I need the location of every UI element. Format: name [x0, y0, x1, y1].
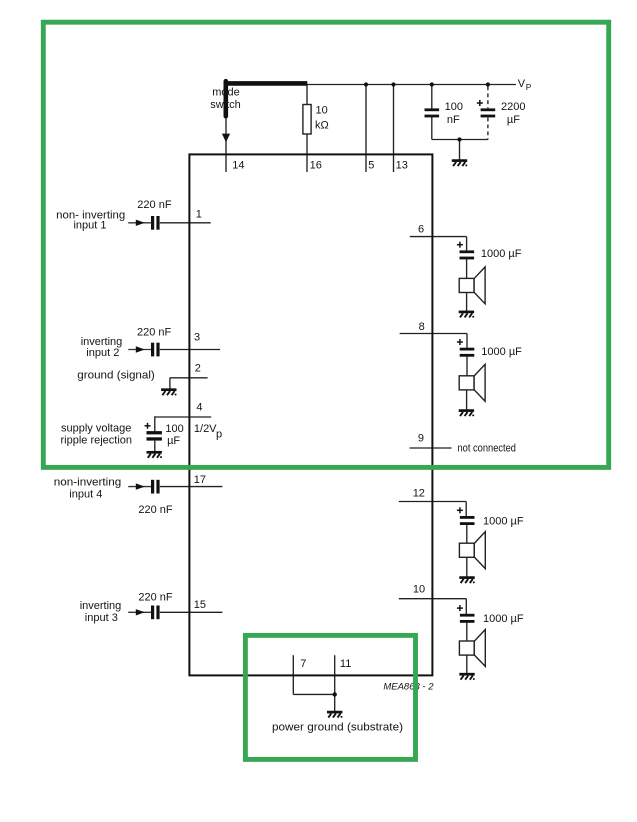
svg-text:µF: µF [167, 435, 180, 447]
svg-text:14: 14 [232, 160, 244, 172]
svg-text:1/2V: 1/2V [194, 423, 217, 435]
svg-text:power ground (substrate): power ground (substrate) [272, 722, 403, 734]
svg-text:5: 5 [368, 160, 374, 172]
svg-text:p: p [216, 428, 222, 440]
svg-text:input 3: input 3 [85, 612, 118, 624]
svg-text:1: 1 [196, 208, 202, 220]
svg-text:not connected: not connected [458, 442, 517, 454]
svg-text:1000 µF: 1000 µF [483, 613, 524, 625]
svg-text:17: 17 [194, 474, 206, 486]
svg-text:µF: µF [507, 114, 520, 126]
svg-text:3: 3 [194, 332, 200, 344]
svg-text:P: P [526, 82, 532, 92]
svg-text:MEA863 - 2: MEA863 - 2 [383, 681, 434, 692]
svg-text:100: 100 [445, 101, 463, 113]
svg-text:8: 8 [419, 321, 425, 333]
svg-text:15: 15 [194, 599, 206, 611]
svg-text:10: 10 [316, 105, 328, 117]
svg-text:1000 µF: 1000 µF [483, 515, 524, 527]
svg-text:supply voltage: supply voltage [61, 423, 131, 435]
svg-text:100: 100 [165, 423, 183, 435]
svg-text:220 nF: 220 nF [138, 504, 173, 516]
svg-text:2200: 2200 [501, 101, 525, 113]
svg-text:12: 12 [413, 488, 425, 500]
svg-text:7: 7 [300, 658, 306, 670]
svg-text:V: V [518, 78, 526, 90]
svg-text:13: 13 [396, 160, 408, 172]
svg-text:1000 µF: 1000 µF [481, 346, 522, 358]
svg-text:2: 2 [195, 363, 201, 375]
svg-text:inverting: inverting [80, 600, 122, 612]
svg-text:220 nF: 220 nF [137, 199, 172, 211]
svg-text:input 2: input 2 [86, 347, 119, 359]
svg-text:switch: switch [210, 99, 241, 111]
svg-text:220 nF: 220 nF [138, 592, 173, 604]
svg-text:non-inverting: non-inverting [54, 476, 122, 488]
svg-text:1000 µF: 1000 µF [481, 248, 522, 260]
svg-text:nF: nF [447, 114, 460, 126]
svg-text:220 nF: 220 nF [137, 327, 172, 339]
svg-text:mode: mode [212, 87, 240, 99]
svg-text:ripple rejection: ripple rejection [61, 435, 133, 447]
svg-text:ground (signal): ground (signal) [77, 369, 155, 381]
svg-text:input 4: input 4 [69, 489, 102, 501]
svg-text:kΩ: kΩ [315, 119, 329, 131]
svg-text:10: 10 [413, 583, 425, 595]
svg-text:9: 9 [418, 432, 424, 444]
svg-text:16: 16 [310, 160, 322, 172]
svg-text:4: 4 [196, 402, 202, 414]
svg-text:11: 11 [340, 658, 351, 670]
svg-text:input 1: input 1 [73, 220, 106, 232]
svg-text:6: 6 [418, 224, 424, 236]
